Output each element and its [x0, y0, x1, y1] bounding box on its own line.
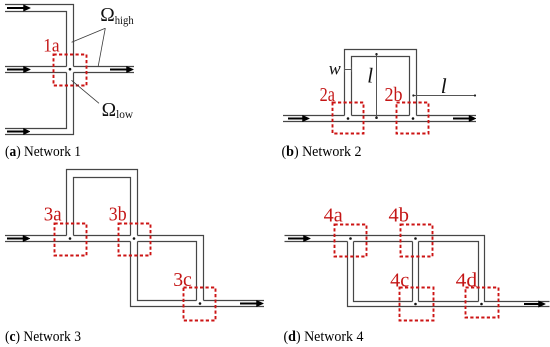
wire: net4 4a stub left rail + bottom line lower rail	[348, 242, 550, 307]
junction box 4b (red dashed)	[401, 225, 433, 257]
wire: net1 vertical left rail lower part + bottom feed inner rail	[5, 73, 67, 129]
wire: net3 loop2 left outer rail + bottom line lower rail	[131, 242, 265, 307]
node 1a junction dot	[69, 68, 72, 71]
wire: net2 bottom line lower rail	[283, 121, 476, 123]
svg-text:2a: 2a	[320, 84, 335, 106]
wire: net4 4a stub right rail + bottom upper rail to 4c	[354, 242, 413, 302]
wire: net3 upper line upper rail middle segment	[74, 235, 131, 237]
wire: net3 loop1 outer rail	[67, 170, 138, 236]
junction box 3a (red dashed)	[55, 224, 87, 256]
junction box 3b (red dashed)	[119, 224, 151, 256]
wire: net1 middle line upper rail right	[74, 66, 135, 68]
wire: net4 upper line lower rail left segment	[285, 241, 348, 243]
svg-text:3c: 3c	[173, 269, 192, 291]
svg-text:4d: 4d	[456, 269, 478, 291]
arrow: net2 input	[288, 115, 310, 121]
junction box 4d (red dashed)	[466, 288, 499, 318]
node 4b junction dot	[414, 237, 417, 240]
wire: net4 4b stub right rail	[418, 242, 420, 302]
svg-text:l: l	[441, 74, 447, 98]
junction box 4a (red dashed)	[335, 225, 367, 257]
junction box 3c (red dashed)	[184, 288, 216, 321]
svg-text:(b) Network 2: (b) Network 2	[282, 144, 362, 160]
wire: net3 upper line upper rail left segment	[5, 235, 67, 237]
svg-text:3a: 3a	[44, 204, 62, 226]
wire: net1 top feed inner rail + vertical left rail upper part	[5, 12, 67, 67]
svg-text:(a) Network 1: (a) Network 1	[5, 144, 81, 160]
pointer line Omega_high to vertical line	[72, 28, 106, 42]
arrow: net1 top input	[7, 5, 31, 11]
wire: net3 upper line upper rail right + loop2 right outer rail	[138, 236, 204, 301]
wire: net3 loop2 left inner rail + bottom line upper rail left	[138, 242, 197, 301]
node 4d junction dot	[480, 303, 483, 306]
wire: net1 middle line lower rail left	[5, 72, 67, 74]
node 4c junction dot	[414, 303, 417, 306]
dimension l horizontal line with end dots	[412, 94, 476, 96]
node 2a junction dot	[347, 117, 350, 120]
svg-text:l: l	[367, 63, 373, 87]
wire: net2 stub loop inner rail	[352, 57, 410, 116]
svg-text:4a: 4a	[324, 205, 343, 227]
pointer line Omega_low to junction	[72, 80, 100, 103]
svg-text:w: w	[329, 59, 341, 79]
wire: net4 upper line lower rail right + right vertical inner rail	[419, 242, 479, 302]
arrow: net1 middle input	[7, 66, 31, 72]
wire: net1 top feed outer rail + vertical right rail upper part	[5, 5, 74, 67]
arrow: net4 output	[524, 301, 546, 307]
wire: net2 bottom line upper rail right segment	[417, 115, 477, 117]
wire: net3 bottom line upper rail right segment	[204, 300, 265, 302]
wire: net1 middle line upper rail left	[5, 66, 67, 68]
wire: net3 upper line lower rail left segment	[5, 241, 131, 243]
junction box 1a (red dashed)	[54, 55, 87, 86]
dimension w line with end ticks	[345, 67, 352, 72]
junction box 2a (red dashed)	[333, 103, 364, 134]
wire: net4 4b stub left rail	[412, 242, 414, 302]
svg-text:Ωlow: Ωlow	[102, 100, 134, 121]
wire: net3 upper line lower rail right + loop2 right inner rail	[138, 242, 197, 301]
dimension l vertical line with end dots	[375, 53, 378, 119]
node 4a junction dot	[349, 237, 352, 240]
wire: net4 bottom upper rail between 4c and 4d	[419, 301, 479, 303]
svg-text:(d) Network 4: (d) Network 4	[284, 329, 365, 345]
node 3a junction dot	[69, 237, 72, 240]
wire: net2 bottom line upper rail left segment	[283, 115, 345, 117]
arrow: net2 output	[453, 115, 476, 121]
junction box 2b (red dashed)	[397, 103, 429, 134]
wire: net4 upper line lower rail middle segment	[354, 241, 413, 243]
wire: net2 bottom line upper rail middle segment	[352, 115, 410, 117]
node 3b junction dot	[133, 237, 136, 240]
svg-text:1a: 1a	[43, 36, 59, 56]
node 3c junction dot	[199, 302, 202, 305]
arrow: net3 output	[240, 300, 264, 306]
wire: net2 stub loop outer rail	[345, 50, 417, 116]
junction box 4c (red dashed)	[400, 288, 434, 321]
arrow: net3 input	[7, 235, 30, 241]
wire: net1 middle line lower rail right	[74, 72, 135, 74]
svg-text:4b: 4b	[389, 205, 409, 227]
svg-text:(c) Network 3: (c) Network 3	[5, 329, 81, 345]
wire: net1 vertical right rail lower part + bottom feed outer rail	[5, 73, 74, 135]
svg-text:2b: 2b	[385, 84, 403, 106]
arrow: net1 middle output	[110, 66, 134, 72]
arrow: net1 bottom input	[7, 128, 30, 134]
svg-text:4c: 4c	[390, 270, 409, 292]
svg-text:3b: 3b	[109, 204, 127, 226]
arrow: net4 input	[288, 235, 311, 241]
wire: net4 upper line upper rail + right vertical outer rail + bottom upper rail right	[285, 236, 550, 302]
node 2b junction dot	[412, 117, 415, 120]
wire: net3 loop1 inner rail	[74, 178, 131, 236]
svg-text:Ωhigh: Ωhigh	[100, 5, 134, 27]
pointer line Omega_high to output line	[98, 28, 105, 66]
